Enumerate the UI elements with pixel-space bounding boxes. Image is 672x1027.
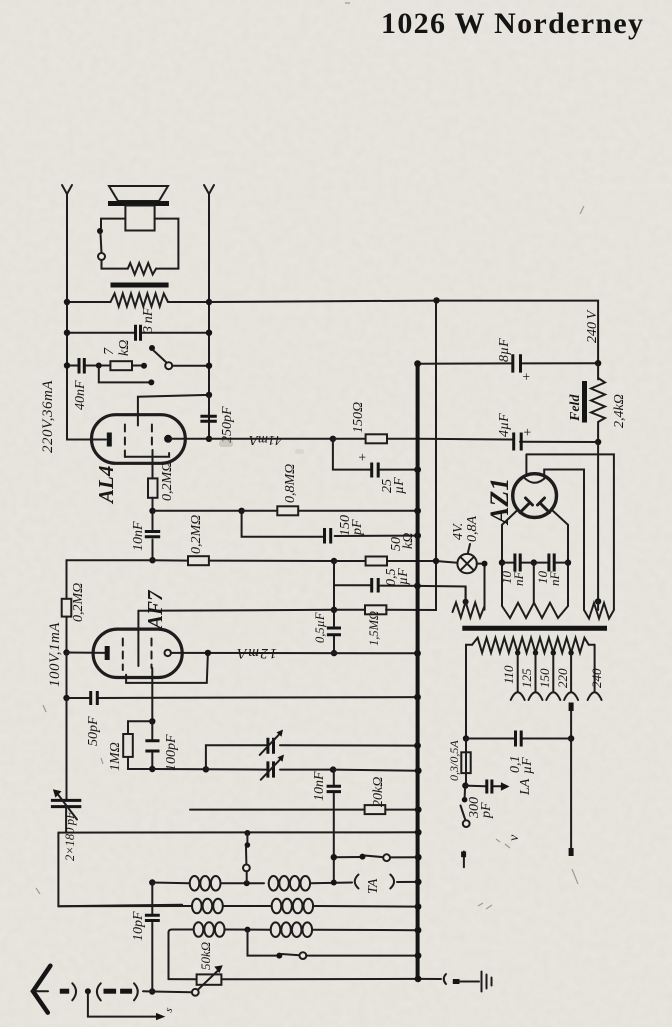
svg-text:kΩ: kΩ <box>401 533 416 549</box>
svg-text:pF: pF <box>479 802 494 819</box>
svg-text:0,2MΩ: 0,2MΩ <box>189 515 204 554</box>
svg-text:TA: TA <box>366 878 381 894</box>
svg-text:100pF: 100pF <box>164 734 179 771</box>
svg-text:+: + <box>521 428 536 437</box>
svg-text:4V.: 4V. <box>451 523 466 540</box>
svg-text:41mA: 41mA <box>249 432 282 447</box>
svg-text:LA: LA <box>518 778 533 796</box>
svg-text:220V,36mA: 220V,36mA <box>40 380 56 453</box>
svg-text:240 V: 240 V <box>585 309 600 343</box>
svg-text:2×180 pF: 2×180 pF <box>63 811 77 861</box>
svg-text:nF: nF <box>511 571 526 587</box>
svg-text:v: v <box>507 834 522 841</box>
svg-text:100V,1mA: 100V,1mA <box>47 622 63 687</box>
svg-text:+: + <box>356 453 371 462</box>
svg-text:4µF: 4µF <box>497 413 512 437</box>
svg-text:AZ1: AZ1 <box>485 478 514 526</box>
svg-text:150Ω: 150Ω <box>351 402 366 433</box>
svg-text:µF: µF <box>392 477 407 494</box>
svg-text:0,8MΩ: 0,8MΩ <box>283 464 298 503</box>
svg-text:10pF: 10pF <box>131 911 146 941</box>
svg-text:110: 110 <box>501 665 516 684</box>
svg-text:Feld: Feld <box>568 394 583 422</box>
svg-text:150: 150 <box>537 668 552 688</box>
svg-text:50kΩ: 50kΩ <box>198 942 213 970</box>
svg-text:10nF: 10nF <box>131 521 146 551</box>
svg-text:0,2MΩ: 0,2MΩ <box>71 583 86 622</box>
svg-text:10nF: 10nF <box>312 771 327 801</box>
svg-text:0,5µF: 0,5µF <box>313 612 327 643</box>
svg-text:AF7: AF7 <box>143 589 167 631</box>
svg-text:220: 220 <box>555 668 570 688</box>
svg-text:8µF: 8µF <box>497 338 512 362</box>
svg-text:kΩ: kΩ <box>117 340 132 356</box>
svg-text:+: + <box>520 372 535 381</box>
svg-text:AL4: AL4 <box>94 466 118 505</box>
svg-text:0,8A: 0,8A <box>465 516 480 543</box>
svg-text:7: 7 <box>102 347 117 355</box>
svg-text:125: 125 <box>519 668 534 688</box>
svg-text:nF: nF <box>547 571 562 587</box>
svg-text:12mA: 12mA <box>236 645 277 661</box>
svg-text:40nF: 40nF <box>73 380 88 410</box>
svg-text:250pF: 250pF <box>220 406 235 443</box>
svg-text:240: 240 <box>589 668 604 688</box>
svg-text:µF: µF <box>396 568 411 585</box>
svg-text:3 nF: 3 nF <box>141 307 156 334</box>
svg-text:µF: µF <box>520 757 535 774</box>
svg-text:1026 W Norderney: 1026 W Norderney <box>381 7 644 40</box>
svg-text:20kΩ: 20kΩ <box>371 777 386 807</box>
svg-text:2,4kΩ: 2,4kΩ <box>612 394 627 428</box>
svg-text:0,3/0,5A: 0,3/0,5A <box>447 740 461 781</box>
svg-text:1MΩ: 1MΩ <box>108 742 123 771</box>
svg-text:1,5MΩ: 1,5MΩ <box>367 611 381 646</box>
svg-text:pF: pF <box>350 519 365 536</box>
svg-text:50pF: 50pF <box>86 716 101 746</box>
svg-text:0,2MΩ: 0,2MΩ <box>160 462 175 501</box>
